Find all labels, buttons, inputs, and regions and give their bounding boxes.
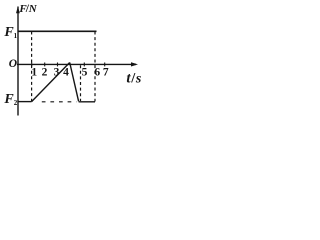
dashed vertical at descent foot — [80, 65, 82, 101]
svg-text:5: 5 — [82, 67, 88, 79]
svg-text:N: N — [28, 3, 38, 15]
t axis arrowhead — [131, 62, 138, 66]
F axis arrowhead — [16, 6, 20, 13]
F2 level solid segment t=0..1 — [18, 101, 32, 103]
svg-text:2: 2 — [14, 99, 18, 107]
svg-text:F: F — [3, 92, 14, 107]
svg-text:s: s — [135, 72, 142, 87]
svg-text:1: 1 — [31, 67, 37, 79]
svg-text:1: 1 — [14, 32, 18, 40]
svg-text:O: O — [9, 58, 17, 70]
svg-text:7: 7 — [103, 67, 109, 79]
F axis (vertical) — [17, 7, 19, 116]
rising ramp from (1,F2) to peak — [32, 63, 70, 102]
t axis (horizontal) — [17, 63, 136, 65]
dashed vertical at t=1 — [31, 32, 33, 102]
tick t=2 — [44, 63, 46, 67]
F1 level line (solid, t=0..6) — [18, 30, 97, 32]
tick t=7 — [104, 63, 106, 67]
tick t=1 — [31, 63, 33, 67]
tick t=5 — [83, 63, 85, 67]
dashed vertical at t=6 — [94, 32, 96, 102]
F2 level solid segment to t=6 — [79, 101, 95, 103]
tick t=3 — [57, 63, 59, 67]
svg-text:2: 2 — [42, 67, 48, 79]
F2 level dashed line — [42, 101, 77, 103]
svg-text:6: 6 — [94, 67, 100, 79]
falling ramp from peak to F2 — [70, 63, 79, 102]
